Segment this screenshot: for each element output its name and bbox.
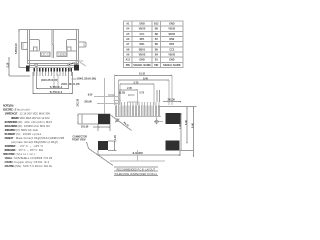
pad bottom-right (166, 141, 180, 151)
dim 5.75 (37, 72, 69, 89)
right dimple (67, 40, 77, 52)
svg-text:PIN: PIN (154, 64, 158, 67)
pin pads row (33, 68, 72, 71)
svg-text:SIGNAL NAME: SIGNAL NAME (133, 64, 151, 67)
svg-text:2.10: 2.10 (6, 62, 9, 67)
svg-text:B9: B9 (155, 28, 159, 31)
left dimple (30, 40, 40, 52)
svg-text:(0.25): (0.25) (119, 92, 125, 94)
svg-text:1.40: 1.40 (179, 124, 182, 129)
svg-text::Copper Alloy C5191 t0.2: :Copper Alloy C5191 t0.2 (13, 160, 50, 164)
svg-text:: -25°C ~ +85°C: : -25°C ~ +85°C (16, 144, 43, 148)
leader 6.50 (88, 93, 121, 97)
svg-text:8.40: 8.40 (192, 123, 195, 128)
center seam (52, 30, 54, 58)
svg-text:A4: A4 (126, 28, 130, 31)
svg-text:ELEC SPEC: ELEC SPEC (3, 108, 13, 112)
dim 14.20 bottom (98, 150, 180, 161)
svg-text:DN2: DN2 (169, 38, 175, 41)
svg-text:A9: A9 (126, 54, 130, 57)
connector front view label (72, 137, 87, 142)
svg-text:5.DURABILITY: 5.DURABILITY (5, 132, 16, 136)
svg-text:A7: A7 (126, 43, 130, 46)
dim 2x1.90 (81, 124, 110, 131)
svg-text:(C): 10000 cycles: (C): 10000 cycles (16, 132, 42, 136)
svg-text:SBU1: SBU1 (139, 48, 146, 51)
svg-text:(un)mate force(0.8Kgf)MIN (2.0: (un)mate force(0.8Kgf)MIN (2.0Kgf) (11, 140, 58, 144)
recommended pcb layout titles (114, 167, 158, 176)
svg-text:: 45°C ~ 85°C RH: : 45°C ~ 85°C RH (16, 148, 43, 152)
svg-text:FRONT VIEW: FRONT VIEW (72, 139, 86, 141)
dim 1.20 (108, 135, 117, 151)
svg-text:8.OPER HUMID: 8.OPER HUMID (5, 148, 16, 152)
svg-text:1.SHELL: 1.SHELL (5, 156, 13, 160)
svg-text:5.85±0.10: 5.85±0.10 (15, 43, 18, 54)
svg-text:0.25A MAX: 0.25A MAX (11, 116, 19, 120)
pin feet (33, 75, 72, 77)
left extension line (103, 78, 105, 114)
left side tab (21, 42, 27, 49)
svg-text:2X0.90: 2X0.90 (84, 101, 92, 104)
svg-text:: 12 16 20V VDC MAX 30V: : 12 16 20V VDC MAX 30V (18, 112, 50, 116)
svg-text:3.PLATING: 3.PLATING (5, 164, 15, 168)
leader from right hole (71, 61, 84, 64)
comb pads (115, 106, 160, 117)
svg-text:1.RATED VOLT: 1.RATED VOLT (5, 112, 18, 116)
svg-text:5.70: 5.70 (134, 82, 139, 85)
bottom-left black pad tab (26, 65, 30, 71)
pad top-right (166, 113, 181, 124)
leader 2x0.90 (84, 101, 120, 104)
svg-text:VBUS: VBUS (139, 54, 146, 57)
svg-text:(Material):: (Material): (16, 152, 37, 156)
svg-text:(4X0.35±0.05): (4X0.35±0.05) (77, 77, 97, 81)
svg-text:6.50: 6.50 (88, 93, 93, 96)
svg-text::SUS/SHELL 1Cr18Ni9 T=0.25: :SUS/SHELL 1Cr18Ni9 T=0.25 (13, 156, 53, 160)
svg-text:B1: B1 (155, 59, 159, 62)
svg-text:A8: A8 (126, 48, 130, 51)
svg-text:DP2: DP2 (169, 43, 174, 46)
dim 5.85 vertical line (15, 29, 27, 68)
svg-text:CC2: CC2 (169, 48, 175, 51)
svg-text:(4X0.35±0.05): (4X0.35±0.05) (41, 78, 58, 82)
svg-text:NOTE:(EH): NOTE:(EH) (3, 104, 14, 108)
pin legs (34, 71, 71, 75)
svg-text:2X1.30: 2X1.30 (76, 98, 79, 106)
svg-text:A6: A6 (126, 38, 130, 41)
svg-text:7.OPER TEMP: 7.OPER TEMP (5, 144, 16, 148)
shell body outline (28, 30, 79, 68)
right window group (57, 52, 67, 56)
svg-text:CC1: CC1 (140, 33, 146, 36)
svg-text:6.40: 6.40 (185, 120, 188, 125)
svg-text:PIN: PIN (126, 64, 130, 67)
svg-text:(SN): SUS T-0.30mm Ni2.0u: (SN): SUS T-0.30mm Ni2.0u (15, 164, 53, 168)
pad top-left (98, 114, 110, 124)
dim 5.70 (120, 82, 154, 106)
svg-text:DN1: DN1 (140, 43, 146, 46)
svg-text:SBU2: SBU2 (169, 33, 176, 36)
svg-text:(R): 1000M ohm MIN DC: (R): 1000M ohm MIN DC (18, 124, 50, 128)
svg-text:1.20: 1.20 (114, 135, 117, 140)
X position mark (111, 115, 132, 130)
svg-text:2.TERM: 2.TERM (5, 160, 13, 164)
dim 2.10 vertical line (6, 57, 30, 76)
svg-text:B8: B8 (155, 33, 159, 36)
comb extension stubs (114, 100, 162, 116)
svg-text:GND: GND (169, 59, 175, 62)
svg-text:B12: B12 (154, 23, 159, 26)
connector front view rect (82, 114, 110, 124)
dim 10.10 (115, 73, 173, 105)
small arrows pairs (108, 94, 115, 96)
dim 2.45 (120, 87, 138, 105)
svg-text:6.INS/EXT: 6.INS/EXT (5, 136, 14, 140)
left hole (35, 64, 38, 67)
svg-text:(R): 40m ohm(ohm) MAX: (R): 40m ohm(ohm) MAX (18, 120, 52, 124)
svg-text:: Mate force(2.0Kgf)MAX/(HDMI): : Mate force(2.0Kgf)MAX/(HDMI)USB (14, 136, 64, 140)
dim 2x1.30 vertical (76, 98, 82, 124)
bottom-right black pad tab (74, 65, 79, 71)
svg-text:2.CONTACT RES: 2.CONTACT RES (5, 120, 18, 124)
leader for right 4x0.35 (72, 78, 77, 80)
dim 6.75 (33, 72, 72, 94)
right hole (68, 63, 71, 66)
table text (126, 23, 181, 67)
svg-text:(Electrical):: (Electrical): (14, 108, 31, 112)
pad bottom-left (98, 141, 108, 150)
svg-text:2X0.45±0.05: 2X0.45±0.05 (61, 82, 80, 86)
svg-text:3.INSULATE RES: 3.INSULATE RES (5, 124, 18, 128)
svg-text:VBUS: VBUS (139, 28, 146, 31)
svg-text:GND: GND (139, 59, 145, 62)
svg-text:GND: GND (169, 23, 175, 26)
svg-text:A5: A5 (126, 33, 130, 36)
left window group (40, 52, 50, 56)
svg-text:A1: A1 (126, 23, 130, 26)
svg-text:2.45: 2.45 (127, 87, 132, 90)
right leader lines (80, 62, 87, 66)
dim 2x1.30 right (157, 90, 181, 102)
svg-text:A12: A12 (126, 59, 131, 62)
right vertical dims (158, 107, 197, 157)
svg-text:SIGNAL NAME: SIGNAL NAME (163, 64, 181, 67)
svg-text:10.10: 10.10 (139, 73, 146, 76)
svg-text:CONNECTOR: CONNECTOR (73, 137, 88, 139)
circle-cross datum (154, 119, 159, 124)
dim 8.45 (118, 78, 169, 105)
svg-text:B5: B5 (155, 48, 159, 51)
svg-text:VBUS: VBUS (168, 54, 175, 57)
svg-text:6.75±0.1: 6.75±0.1 (50, 90, 63, 94)
svg-text:4.WITHSTAND: 4.WITHSTAND (5, 128, 16, 132)
svg-text:(V): 500V AC 1min: (V): 500V AC 1min (16, 128, 39, 132)
svg-text:STRUCT SPEC: STRUCT SPEC (3, 152, 15, 156)
svg-text:VBUS: VBUS (168, 28, 175, 31)
svg-text:5.75±0.1: 5.75±0.1 (50, 85, 63, 89)
svg-text:B6: B6 (155, 43, 159, 46)
svg-text:GND: GND (139, 23, 145, 26)
svg-text:B7: B7 (155, 38, 159, 41)
table grid (124, 21, 184, 68)
svg-text:0.75: 0.75 (140, 92, 145, 94)
long diagonal leader (87, 142, 114, 166)
right side tab (79, 42, 86, 47)
svg-text:2X1.90: 2X1.90 (81, 127, 89, 129)
svg-text:B4: B4 (155, 54, 159, 57)
svg-text:DP1: DP1 (140, 38, 145, 41)
svg-text:8.45: 8.45 (143, 78, 148, 81)
svg-text:VDC MAX 30V AC 12 16V: VDC MAX 30V AC 12 16V (20, 116, 50, 120)
